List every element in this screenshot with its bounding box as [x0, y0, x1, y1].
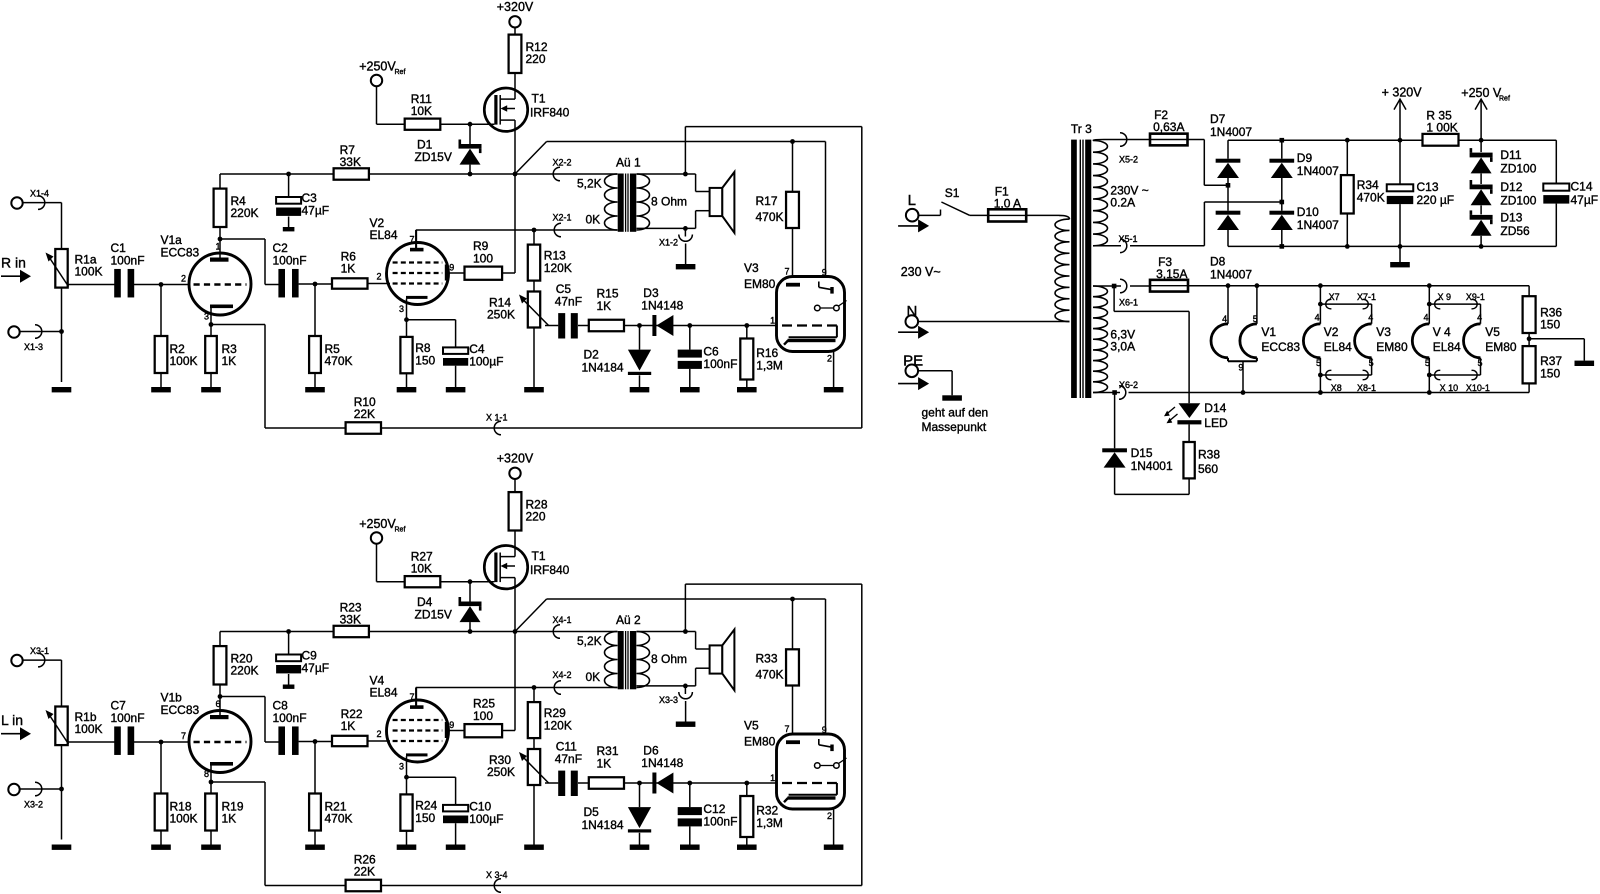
svg-text:10K: 10K: [411, 562, 432, 576]
svg-text:150: 150: [1540, 366, 1560, 380]
svg-text:3: 3: [204, 312, 209, 322]
triode V1a ECC83: [161, 233, 252, 325]
svg-text:33K: 33K: [340, 613, 361, 627]
svg-text:+320V: +320V: [497, 0, 534, 14]
capacitor C13 220µF: [1387, 140, 1454, 267]
svg-text:33K: 33K: [340, 155, 361, 169]
svg-text:X 1-1: X 1-1: [486, 413, 508, 423]
svg-text:T1: T1: [532, 549, 546, 563]
svg-text:120K: 120K: [544, 261, 572, 275]
svg-text:0.2A: 0.2A: [1110, 196, 1135, 210]
svg-text:1N4184: 1N4184: [582, 818, 624, 832]
svg-text:470K: 470K: [325, 812, 353, 826]
ground input: [52, 387, 72, 392]
connector X6-2: [1093, 380, 1529, 399]
wire pot wiper to C cap: [68, 284, 115, 286]
svg-text:9: 9: [822, 725, 827, 735]
resistor R21: [309, 742, 352, 845]
svg-text:7: 7: [181, 731, 186, 741]
zener D12 ZD100: [1470, 174, 1537, 208]
connector X3-3 speaker ground: [659, 686, 695, 727]
svg-text:1K: 1K: [222, 812, 237, 826]
capacitor C2: [273, 241, 307, 297]
pentode V2 EL84: [370, 216, 455, 320]
svg-text:220: 220: [526, 52, 546, 66]
resistor R27: [377, 550, 495, 588]
wire F2 to bridge AC1: [1188, 140, 1229, 186]
wire anode to coupling cap: [220, 697, 279, 743]
svg-text:5: 5: [1478, 358, 1483, 368]
diode D6 1N4148: [637, 744, 684, 794]
svg-text:250K: 250K: [487, 765, 515, 779]
svg-text:0K: 0K: [586, 670, 601, 684]
svg-text:470K: 470K: [756, 668, 784, 682]
svg-text:7: 7: [785, 267, 790, 277]
svg-text:X7-1: X7-1: [1357, 292, 1376, 302]
svg-text:1N4007: 1N4007: [1210, 268, 1252, 282]
svg-text:+250V: +250V: [359, 517, 396, 531]
svg-text:X7: X7: [1329, 292, 1340, 302]
svg-text:1N4007: 1N4007: [1297, 218, 1339, 232]
resistor R17: [756, 142, 799, 285]
wire X5-1 to bridge AC2: [1204, 202, 1281, 246]
svg-text:D7: D7: [1210, 112, 1226, 126]
svg-text:150: 150: [415, 354, 435, 368]
speaker: [710, 630, 735, 691]
svg-text:EL84: EL84: [370, 686, 398, 700]
zener diode D1 ZD15V: [415, 124, 482, 174]
svg-text:D2: D2: [584, 348, 600, 362]
mains terminal PE: [898, 353, 988, 435]
wire anode feedback rail: [220, 629, 334, 634]
fuse F3 3,15A: [1150, 255, 1188, 292]
capacitor C12: [678, 781, 738, 845]
ground D2: [630, 387, 650, 392]
connector X5-2: [1093, 133, 1150, 165]
svg-text:9: 9: [822, 268, 827, 278]
resistor R35 100K: [1423, 109, 1557, 146]
diode D15 1N4001: [1102, 393, 1189, 495]
resistor R18: [155, 742, 198, 845]
resistor R32: [740, 781, 783, 845]
svg-text:Massepunkt: Massepunkt: [922, 420, 987, 434]
resistor R10: [211, 325, 381, 434]
diode D8 1N4007: [1210, 185, 1252, 281]
triode V1b ECC83: [161, 691, 252, 783]
svg-text:100nF: 100nF: [111, 711, 145, 725]
svg-text:EL84: EL84: [1324, 340, 1352, 354]
svg-text:EL84: EL84: [1433, 340, 1461, 354]
svg-text:EM80: EM80: [744, 735, 776, 749]
svg-text:S1: S1: [945, 186, 960, 200]
svg-text:100K: 100K: [75, 722, 103, 736]
svg-text:150: 150: [415, 811, 435, 825]
svg-text:1N4007: 1N4007: [1297, 164, 1339, 178]
supply label +250V Ref: [1461, 86, 1510, 140]
ground R14: [524, 845, 544, 850]
svg-text:9: 9: [449, 720, 454, 730]
svg-text:N: N: [907, 303, 918, 320]
resistor R11: [377, 92, 495, 130]
svg-text:22K: 22K: [354, 865, 375, 879]
transformer Tr3: [1055, 122, 1149, 398]
capacitor C14 47µF: [1543, 140, 1598, 246]
mosfet T1 IRF840: [484, 531, 569, 632]
wire feedback loop: [381, 584, 862, 892]
resistor R36 150: [1523, 286, 1563, 333]
input terminal X1-4: [11, 188, 61, 209]
resistor R38 560: [1183, 424, 1220, 494]
input label L in: [1, 712, 31, 740]
resistor R3: [205, 322, 237, 387]
svg-text:100K: 100K: [170, 812, 198, 826]
zener diode D4 ZD15V: [415, 582, 482, 632]
svg-text:Aü 2: Aü 2: [616, 613, 641, 627]
svg-text:ECC83: ECC83: [1261, 340, 1300, 354]
wire anode to coupling cap: [220, 239, 279, 285]
svg-text:100nF: 100nF: [273, 254, 307, 268]
resistor R22: [299, 707, 390, 746]
svg-text:X4-1: X4-1: [553, 615, 572, 625]
svg-text:1N4148: 1N4148: [641, 756, 683, 770]
wire drain junction / diagonal: [513, 597, 826, 745]
svg-text:220K: 220K: [231, 664, 259, 678]
resistor R13: [528, 230, 572, 281]
svg-text:Ref: Ref: [1499, 96, 1510, 103]
resistor R15: [589, 287, 777, 332]
svg-text:470K: 470K: [756, 210, 784, 224]
svg-text:X3-3: X3-3: [659, 695, 678, 705]
svg-text:X5-2: X5-2: [1119, 154, 1138, 164]
svg-text:22K: 22K: [354, 407, 375, 421]
svg-text:X4-2: X4-2: [553, 670, 572, 680]
svg-text:X1-2: X1-2: [659, 238, 678, 248]
svg-text:D14: D14: [1204, 401, 1226, 415]
svg-text:EM80: EM80: [744, 277, 776, 291]
connector X6-1: [1093, 279, 1150, 308]
resistor R5: [309, 284, 352, 387]
capacitor C1: [111, 241, 145, 297]
ground R2: [151, 387, 171, 392]
output transformer Aü 1: [577, 156, 687, 232]
capacitor C9: [276, 632, 329, 689]
capacitor C10: [407, 777, 504, 844]
ground R5: [305, 387, 325, 392]
diode D5 1N4184: [582, 783, 652, 845]
svg-text:2: 2: [827, 354, 832, 364]
svg-text:8 Ohm: 8 Ohm: [651, 652, 687, 666]
ground C6: [680, 387, 700, 392]
potentiometer R1b: [46, 707, 103, 746]
diode D9 1N4007: [1269, 138, 1339, 204]
svg-text:X1-3: X1-3: [24, 342, 43, 352]
zener D11 ZD100: [1470, 140, 1537, 175]
svg-text:2: 2: [377, 272, 382, 282]
mains terminal L: [898, 192, 929, 232]
svg-text:1K: 1K: [597, 299, 612, 313]
resistor R26: [211, 782, 381, 891]
svg-text:9: 9: [449, 263, 454, 273]
magic eye V5 EM80: [744, 719, 847, 822]
capacitor C3: [276, 174, 329, 231]
capacitor C11: [545, 740, 589, 797]
terminal +250V Ref: [359, 60, 405, 125]
svg-text:V2: V2: [1324, 325, 1339, 339]
ground R16: [737, 845, 757, 850]
svg-text:X1-4: X1-4: [30, 188, 49, 198]
switch S1: [919, 186, 970, 215]
ground input: [52, 845, 72, 850]
svg-text:X3-1: X3-1: [30, 646, 49, 656]
svg-text:X2-2: X2-2: [553, 158, 572, 168]
potentiometer R14: [487, 281, 549, 387]
svg-text:X2-1: X2-1: [553, 213, 572, 223]
resistor R25: [449, 632, 516, 738]
svg-text:4: 4: [1368, 313, 1373, 323]
svg-text:1,3M: 1,3M: [756, 359, 783, 373]
wire C to grid: [134, 740, 190, 745]
svg-text:0K: 0K: [586, 213, 601, 227]
svg-text:X9-1: X9-1: [1466, 292, 1485, 302]
resistor R23: [334, 601, 515, 638]
svg-text:3: 3: [399, 762, 404, 772]
resistor R19: [205, 780, 244, 845]
capacitor C6: [678, 323, 738, 387]
svg-text:1 00K: 1 00K: [1426, 121, 1457, 135]
wire input bus: [61, 203, 63, 382]
svg-text:100: 100: [473, 252, 493, 266]
svg-text:C13: C13: [1417, 180, 1439, 194]
svg-text:V1: V1: [1261, 325, 1276, 339]
svg-text:Ref: Ref: [395, 69, 406, 76]
capacitor C5: [545, 282, 589, 339]
svg-text:ECC83: ECC83: [161, 703, 200, 717]
svg-text:5: 5: [1369, 358, 1374, 368]
svg-text:D8: D8: [1210, 255, 1226, 269]
svg-text:X10-1: X10-1: [1466, 383, 1490, 393]
svg-text:5: 5: [1253, 314, 1258, 324]
svg-text:C14: C14: [1571, 180, 1593, 194]
svg-text:47nF: 47nF: [555, 295, 582, 309]
svg-text:X6-2: X6-2: [1119, 380, 1138, 390]
ground R3: [201, 845, 221, 850]
svg-text:D9: D9: [1297, 151, 1313, 165]
svg-text:7: 7: [410, 235, 415, 245]
svg-text:V5: V5: [744, 719, 759, 733]
svg-text:1N4184: 1N4184: [582, 361, 624, 375]
diode D2 1N4184: [582, 326, 652, 388]
connector X4-1: [515, 615, 618, 638]
svg-text:4: 4: [1222, 314, 1227, 324]
svg-text:X8-1: X8-1: [1357, 383, 1376, 393]
svg-text:L: L: [908, 192, 916, 209]
svg-text:100nF: 100nF: [703, 815, 737, 829]
terminal +320V: [497, 0, 534, 28]
svg-text:220K: 220K: [231, 206, 259, 220]
svg-text:X3-2: X3-2: [24, 800, 43, 810]
svg-text:47µF: 47µF: [302, 204, 330, 218]
svg-text:ZD56: ZD56: [1500, 224, 1530, 238]
svg-text:D13: D13: [1500, 211, 1522, 225]
ground R2: [151, 845, 171, 850]
svg-text:47µF: 47µF: [1571, 193, 1599, 207]
ground C4: [446, 845, 466, 850]
wire R36 R37 junction to ground: [1527, 333, 1594, 366]
svg-text:IRF840: IRF840: [530, 563, 570, 577]
wire V3 cathode to ground: [824, 352, 844, 393]
svg-text:Tr 3: Tr 3: [1071, 122, 1092, 136]
fuse F2 0,63A: [1150, 108, 1188, 145]
svg-text:2: 2: [377, 729, 382, 739]
svg-text:8: 8: [204, 769, 209, 779]
svg-text:2: 2: [827, 811, 832, 821]
svg-text:D12: D12: [1500, 180, 1522, 194]
svg-text:3,0A: 3,0A: [1110, 340, 1135, 354]
led D14: [1164, 401, 1228, 430]
svg-text:geht auf den: geht auf den: [922, 406, 989, 420]
svg-text:100µF: 100µF: [469, 355, 503, 369]
svg-text:5,2K: 5,2K: [577, 177, 602, 191]
svg-text:470K: 470K: [1357, 191, 1385, 205]
svg-text:R17: R17: [756, 194, 778, 208]
svg-text:4: 4: [1477, 313, 1482, 323]
magic eye V3 EM80: [744, 261, 847, 364]
svg-text:4: 4: [1315, 313, 1320, 323]
wire heater positive rail: [1188, 283, 1529, 288]
svg-text:X5-1: X5-1: [1119, 234, 1138, 244]
resistor R20: [214, 632, 259, 699]
svg-text:1,0 A: 1,0 A: [994, 197, 1021, 211]
speaker: [710, 172, 735, 233]
fuse F1 1,0A: [970, 185, 1026, 222]
svg-text:4: 4: [1424, 313, 1429, 323]
wire anode feedback rail: [220, 172, 334, 177]
svg-text:100: 100: [473, 709, 493, 723]
svg-text:100µF: 100µF: [469, 812, 503, 826]
ground R8: [397, 845, 417, 850]
svg-text:150: 150: [1540, 318, 1560, 332]
svg-text:Ref: Ref: [395, 527, 406, 534]
svg-text:8 Ohm: 8 Ohm: [651, 195, 687, 209]
mosfet T1 IRF840: [484, 73, 569, 174]
svg-text:1N4001: 1N4001: [1131, 459, 1173, 473]
svg-text:X 3-4: X 3-4: [486, 870, 508, 880]
svg-text:2: 2: [181, 274, 186, 284]
svg-text:1N4007: 1N4007: [1210, 125, 1252, 139]
resistor R16: [740, 323, 783, 387]
svg-text:IRF840: IRF840: [530, 106, 570, 120]
mains label 230V: [901, 265, 941, 279]
svg-text:R in: R in: [1, 255, 26, 271]
wire feedback loop: [381, 127, 862, 435]
svg-text:D5: D5: [584, 805, 600, 819]
potentiometer R1a: [46, 249, 103, 288]
svg-text:X8: X8: [1331, 383, 1342, 393]
svg-text:X 9: X 9: [1438, 292, 1452, 302]
connector X5-1: [1093, 234, 1204, 253]
capacitor C4: [407, 320, 504, 387]
resistor R37 150: [1523, 346, 1563, 392]
svg-text:V3: V3: [1376, 325, 1391, 339]
svg-text:5,2K: 5,2K: [577, 634, 602, 648]
wire bridge negative rail: [1228, 244, 1556, 249]
svg-text:10K: 10K: [411, 104, 432, 118]
svg-text:100nF: 100nF: [703, 357, 737, 371]
svg-text:1: 1: [216, 242, 221, 252]
svg-text:3,15A: 3,15A: [1156, 267, 1187, 281]
resistor R9: [449, 174, 516, 280]
svg-text:1K: 1K: [222, 354, 237, 368]
resistor R28: [509, 485, 548, 531]
svg-text:47nF: 47nF: [555, 752, 582, 766]
resistor R4: [214, 174, 259, 241]
potentiometer R30: [487, 738, 549, 844]
resistor R34 470K: [1341, 140, 1385, 246]
wire input bus: [61, 660, 63, 839]
connector X2-2: [515, 158, 618, 181]
svg-text:EL84: EL84: [370, 228, 398, 242]
svg-text:R38: R38: [1198, 448, 1220, 462]
svg-text:3: 3: [399, 304, 404, 314]
svg-text:T1: T1: [532, 92, 546, 106]
resistor R8: [400, 317, 435, 387]
svg-text:1: 1: [770, 316, 775, 326]
svg-text:5: 5: [1425, 358, 1430, 368]
svg-text:+250V: +250V: [359, 60, 396, 74]
svg-text:1,3M: 1,3M: [756, 816, 783, 830]
ground R14: [524, 387, 544, 392]
svg-text:V 4: V 4: [1433, 325, 1451, 339]
svg-text:D15: D15: [1131, 446, 1153, 460]
svg-text:5: 5: [1316, 358, 1321, 368]
svg-text:ZD100: ZD100: [1500, 194, 1536, 208]
wire F1 to primary: [1026, 215, 1069, 219]
resistor R12: [509, 28, 548, 74]
svg-text:1: 1: [770, 773, 775, 783]
svg-text:LED: LED: [1204, 416, 1228, 430]
resistor R31: [589, 744, 777, 789]
svg-text:V5: V5: [1485, 325, 1500, 339]
wire C to grid: [134, 282, 190, 287]
svg-text:1K: 1K: [341, 719, 356, 733]
svg-text:100K: 100K: [170, 354, 198, 368]
connector X2-1: [416, 213, 618, 249]
svg-text:X6-1: X6-1: [1119, 298, 1138, 308]
input label R in: [1, 255, 31, 283]
svg-text:PE: PE: [903, 353, 923, 370]
svg-text:EM80: EM80: [1376, 340, 1408, 354]
ground R8: [397, 387, 417, 392]
diode D7 1N4007: [1210, 112, 1252, 188]
wire bridge positive rail: [1228, 138, 1423, 143]
ground R3: [201, 387, 221, 392]
svg-text:1K: 1K: [341, 262, 356, 276]
wire pot wiper to C cap: [68, 741, 115, 743]
svg-text:220 µF: 220 µF: [1417, 193, 1455, 207]
ground R16: [737, 387, 757, 392]
resistor R7: [334, 143, 515, 180]
svg-text:0,63A: 0,63A: [1153, 120, 1184, 134]
resistor R33: [756, 599, 799, 742]
svg-text:EM80: EM80: [1485, 340, 1517, 354]
svg-text:7: 7: [410, 692, 415, 702]
output transformer Aü 2: [577, 613, 687, 689]
svg-text:R33: R33: [756, 652, 778, 666]
svg-text:X 10: X 10: [1440, 383, 1459, 393]
heater V2 EL84 / V3 EM80: [1303, 286, 1408, 393]
svg-text:250K: 250K: [487, 308, 515, 322]
svg-text:D11: D11: [1500, 148, 1521, 162]
